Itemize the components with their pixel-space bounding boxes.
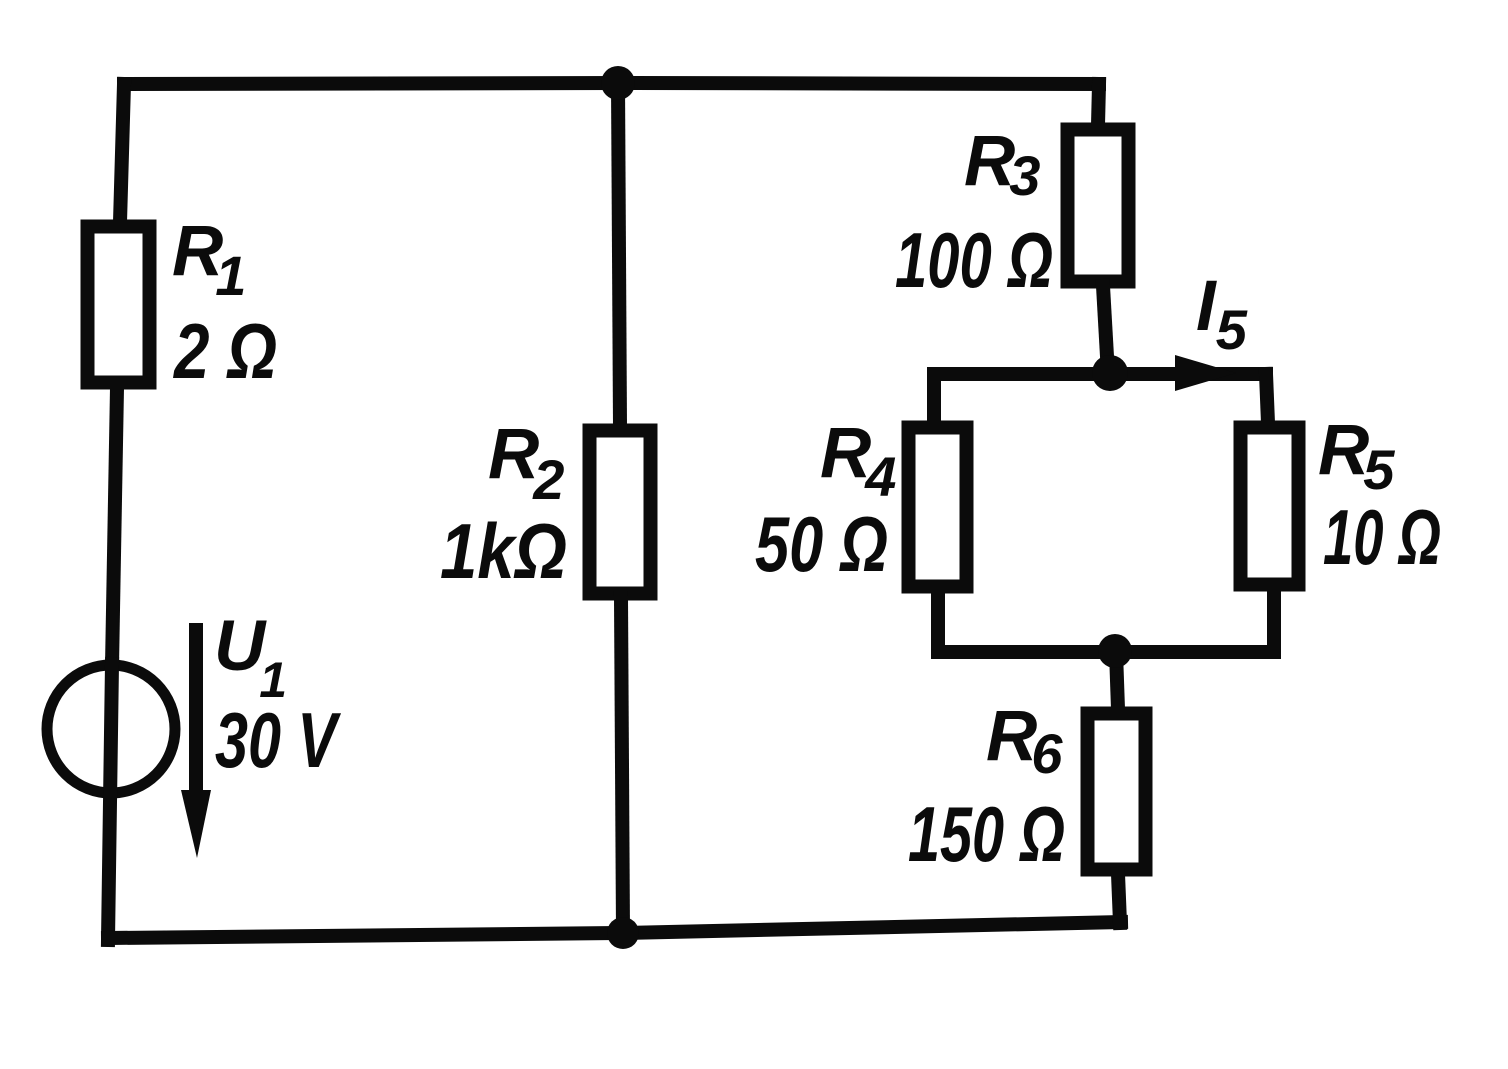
resistor R5 <box>1241 428 1299 585</box>
wire left elbow down to R4 <box>927 374 941 423</box>
wire left branch middle <box>112 388 117 666</box>
svg-text:2 Ω: 2 Ω <box>172 307 277 395</box>
resistor R1 <box>88 227 150 383</box>
svg-text:50 Ω: 50 Ω <box>755 500 888 588</box>
wire node B horizontal <box>934 367 1266 381</box>
arrowhead I5 <box>1175 355 1236 391</box>
wire middle branch lower <box>621 598 623 933</box>
wire bottom-left segment <box>108 933 623 938</box>
svg-text:10 Ω: 10 Ω <box>1323 493 1441 581</box>
wire R6 to bottom <box>1118 874 1120 923</box>
wire left branch upper <box>120 84 124 222</box>
wire middle branch upper <box>618 83 620 426</box>
resistor R2 <box>590 431 651 594</box>
wire node C to R6 <box>1116 652 1118 709</box>
svg-text:150 Ω: 150 Ω <box>908 790 1065 878</box>
resistor R3 <box>1068 130 1129 282</box>
wire through source to bottom <box>108 664 112 940</box>
svg-text:1kΩ: 1kΩ <box>440 507 567 595</box>
svg-text:R6: R6 <box>986 697 1063 785</box>
wire R5 down <box>1267 589 1281 652</box>
wire R4 down <box>931 591 945 652</box>
wire bottom-right segment <box>623 922 1121 933</box>
svg-text:U1: U1 <box>214 607 287 708</box>
wire top-left segment <box>124 83 618 84</box>
wire joining R4 R5 <box>938 645 1274 659</box>
svg-text:100 Ω: 100 Ω <box>895 216 1053 304</box>
svg-text:R5: R5 <box>1318 411 1395 501</box>
junction node B below R3 <box>1092 355 1128 391</box>
voltage source U1 <box>47 665 175 793</box>
svg-text:R3: R3 <box>964 122 1040 207</box>
junction node top <box>601 66 635 100</box>
wire right branch into R3 <box>1098 84 1099 125</box>
resistor R6 <box>1088 714 1146 870</box>
wire top-right segment <box>618 83 1099 84</box>
arrow U1 polarity line <box>189 630 203 795</box>
wire R3 to node B <box>1103 286 1108 374</box>
junction node C above R6 <box>1098 634 1132 668</box>
svg-text:I5: I5 <box>1196 267 1248 361</box>
arrowhead U1 <box>181 790 211 858</box>
svg-text:30 V: 30 V <box>215 696 342 784</box>
svg-text:R4: R4 <box>820 414 896 508</box>
wire right elbow down to R5 <box>1266 374 1268 423</box>
svg-text:R1: R1 <box>172 212 246 307</box>
svg-text:R2: R2 <box>488 415 564 511</box>
resistor R4 <box>909 428 967 587</box>
junction node bottom <box>607 917 639 949</box>
